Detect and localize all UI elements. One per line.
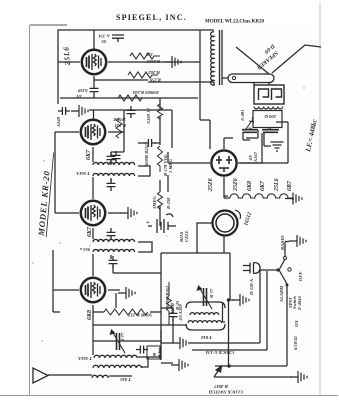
svg-text:A167: A167 (253, 151, 258, 163)
svg-text:6K7: 6K7 (87, 226, 93, 237)
svg-text:A348: A348 (56, 116, 61, 128)
svg-text:25L6: 25L6 (61, 46, 72, 67)
svg-text:200 Ω: 200 Ω (264, 114, 277, 119)
svg-text:OFF: OFF (298, 272, 303, 281)
svg-text:A358 10: A358 10 (146, 108, 151, 125)
svg-text:955 x: 955 x (79, 247, 90, 252)
svg-text:CELL: CELL (184, 230, 189, 242)
svg-text:6K8: 6K8 (87, 310, 93, 320)
svg-text:A359: A359 (77, 88, 89, 93)
svg-text:6K7: 6K7 (260, 180, 266, 191)
svg-text:1 MEG: 1 MEG (168, 158, 173, 173)
svg-text:CLOCK SWITCH: CLOCK SWITCH (208, 390, 243, 395)
svg-text:SPIEGEL, INC.: SPIEGEL, INC. (116, 13, 187, 22)
svg-text:ALARM: ALARM (279, 285, 284, 303)
svg-text:1MEG: 1MEG (152, 196, 157, 209)
svg-text:6/18/41: 6/18/41 (293, 336, 298, 350)
svg-text:25Z6: 25Z6 (208, 178, 214, 192)
svg-text:+: + (146, 219, 150, 226)
svg-text:500M R-257: 500M R-257 (128, 313, 152, 318)
svg-text:B-4047: B-4047 (214, 384, 229, 389)
svg-text:.05 A309: .05 A309 (178, 304, 183, 321)
svg-text:A-374: A-374 (98, 34, 111, 39)
svg-text:MODEL WL22,Chas.KR20: MODEL WL22,Chas.KR20 (205, 20, 264, 25)
svg-text:H.262: H.262 (148, 70, 161, 75)
svg-text:T-561A: T-561A (78, 356, 92, 361)
svg-text:6K7: 6K7 (86, 149, 92, 160)
svg-text:T-844: T-844 (200, 335, 212, 340)
svg-text:E-4044: E-4044 (297, 296, 302, 311)
svg-text:6K8: 6K8 (247, 181, 253, 191)
svg-text:ON: ON (294, 320, 299, 327)
svg-text:30M Z: 30M Z (113, 117, 127, 122)
svg-text:40: 40 (247, 127, 253, 132)
svg-text:CLOCK G-134: CLOCK G-134 (205, 350, 234, 355)
svg-text:T 845: T 845 (119, 377, 131, 382)
svg-text:B-77: B-77 (209, 288, 214, 299)
svg-text:T-561A: T-561A (76, 171, 90, 176)
svg-text:R.2023: R.2023 (146, 59, 160, 64)
svg-text:05: 05 (101, 39, 106, 44)
svg-text:500M R262: 500M R262 (165, 285, 170, 308)
svg-text:RADIO: RADIO (280, 235, 285, 250)
svg-text:R.243: R.243 (114, 123, 126, 128)
svg-text:500M R251: 500M R251 (144, 144, 149, 166)
svg-text:.01: .01 (76, 94, 82, 99)
svg-text:100000 R.244: 100000 R.244 (132, 90, 159, 95)
svg-text:25L6: 25L6 (274, 178, 280, 192)
svg-text:B-77: B-77 (120, 332, 125, 343)
svg-text:6R7: 6R7 (287, 180, 293, 191)
svg-text:R-258: R-258 (166, 197, 171, 209)
svg-text:25Z6: 25Z6 (233, 178, 239, 192)
svg-text:A-481: A-481 (240, 110, 245, 122)
svg-text:140: 140 (145, 52, 153, 57)
svg-text:(4.5v): (4.5v) (157, 347, 162, 358)
svg-text:D-118-A: D-118-A (249, 279, 254, 296)
svg-text:30: 30 (267, 127, 273, 132)
svg-text:R.259: R.259 (149, 78, 161, 83)
